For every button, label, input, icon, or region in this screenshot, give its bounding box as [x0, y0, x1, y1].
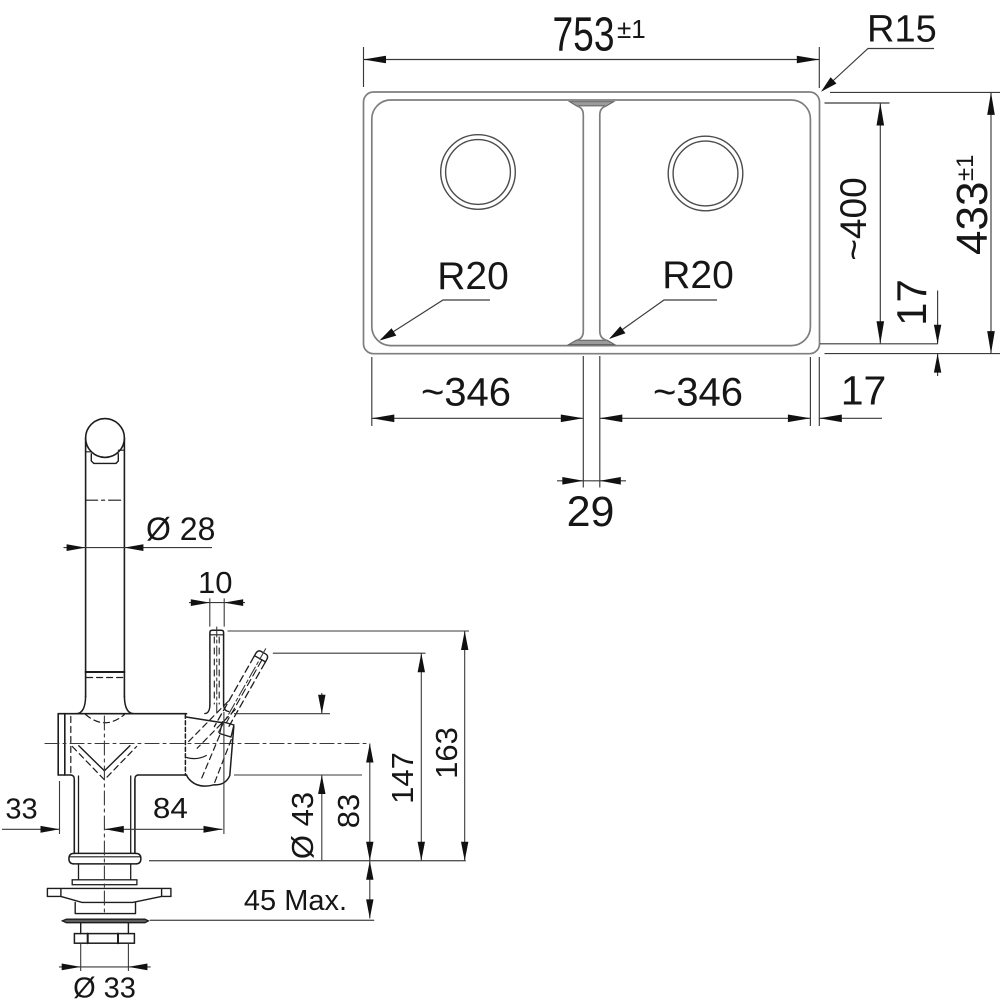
- ref line 45 bottom: [150, 919, 374, 921]
- handle lever (phantom): [211, 646, 271, 738]
- mounting nut: [74, 934, 134, 944]
- dim D43 extension lines: [234, 714, 362, 775]
- dim 17 right vertical line: [937, 291, 939, 377]
- pin centerline: [216, 627, 218, 712]
- dim 433 line: [990, 92, 992, 353]
- dim 84 line: [105, 828, 223, 830]
- svg-text:45 Max.: 45 Max.: [244, 885, 347, 917]
- dim 10 extension lines: [210, 598, 224, 626]
- dim 33 line: [2, 828, 60, 830]
- bottom extension lines: [372, 357, 820, 426]
- wedge phantom lever edges: [189, 702, 236, 749]
- svg-text:±1: ±1: [617, 14, 646, 44]
- R15 leader: [823, 49, 935, 91]
- svg-text:29: 29: [567, 488, 615, 536]
- dim 433 text: [948, 154, 997, 255]
- flange mid line: [69, 856, 140, 858]
- svg-text:84: 84: [153, 793, 188, 825]
- inner bottom extension line: [820, 343, 938, 345]
- dim 753 line: [364, 59, 820, 61]
- svg-text:33: 33: [5, 794, 37, 826]
- dim D33 line: [59, 966, 151, 968]
- sink outer rim: [364, 92, 820, 354]
- base fillets: [71, 775, 138, 780]
- spout-body flare: [76, 696, 134, 714]
- wedge inner arc: [187, 756, 207, 759]
- ref line pin top (163): [228, 630, 470, 632]
- dim D28 line: [64, 547, 213, 549]
- pin bottom flare: [205, 705, 229, 714]
- pin outline: [210, 630, 224, 706]
- right bowl drain hole: [668, 136, 743, 211]
- dim ~346 left line: [372, 417, 584, 419]
- ref line lever top (147): [273, 652, 426, 654]
- spout break dash-dot: [86, 499, 125, 501]
- dim D43 line and arrows: [321, 693, 323, 861]
- svg-text:Ø 43: Ø 43: [285, 792, 320, 859]
- svg-text:163: 163: [429, 727, 464, 779]
- wedge hidden lever lines: [201, 736, 232, 786]
- divider top cap: [570, 102, 614, 106]
- dim ~400 extension line: [825, 102, 890, 104]
- body centerline horizontal: [45, 743, 367, 745]
- svg-text:~400: ~400: [833, 177, 874, 260]
- spout coupling line: [86, 671, 125, 673]
- svg-text:17: 17: [888, 279, 935, 326]
- dim 753 extension lines: [364, 47, 820, 88]
- faucet centerline vertical: [103, 716, 105, 914]
- dim ~346 right line: [600, 417, 811, 419]
- dim 17 bottom line: [819, 417, 882, 419]
- dim 433 extension lines: [825, 92, 1000, 353]
- cartridge wedge outline: [185, 717, 233, 786]
- body left hidden line: [70, 717, 72, 773]
- left bowl drain hole: [441, 135, 516, 210]
- divider extension lines: [583, 356, 600, 488]
- escutcheon plate: [47, 888, 170, 902]
- body left end cap: [58, 714, 65, 775]
- svg-text:83: 83: [331, 794, 366, 828]
- dim 83 line: [369, 744, 371, 861]
- svg-text:147: 147: [385, 752, 420, 804]
- body top line: [58, 713, 186, 715]
- dim 147 line: [420, 653, 422, 861]
- svg-text:433: 433: [948, 182, 997, 255]
- flange: [69, 853, 141, 864]
- hidden cone V: [72, 747, 136, 780]
- dim ~400 line: [879, 103, 881, 344]
- hidden tube arc in body: [86, 715, 125, 723]
- divider left wall: [577, 106, 584, 340]
- stem below flange: [79, 864, 131, 880]
- ref line counter top: [149, 860, 466, 862]
- base column outer walls: [74, 780, 135, 854]
- dim 29 line: [557, 480, 626, 482]
- svg-text:17: 17: [841, 368, 887, 414]
- svg-text:±1: ±1: [952, 154, 979, 181]
- divider right wall: [600, 106, 607, 340]
- svg-text:Ø 33: Ø 33: [73, 973, 136, 1000]
- spacer ring: [72, 880, 137, 885]
- svg-text:R20: R20: [662, 254, 734, 297]
- svg-text:R15: R15: [867, 9, 937, 51]
- divider bottom cap: [569, 340, 615, 344]
- spout cap seam ticks: [86, 450, 125, 452]
- shank upper: [81, 923, 129, 934]
- nut face lines: [88, 934, 118, 944]
- dim 10 line: [189, 602, 245, 604]
- spout cap cup: [91, 454, 118, 464]
- dim 163 line: [464, 631, 466, 861]
- sink inner bowl rim: [372, 100, 811, 346]
- dim D33 extension lines: [81, 943, 129, 971]
- lever collar: [220, 722, 234, 737]
- thin washer plate: [62, 919, 148, 923]
- svg-text:753: 753: [553, 9, 615, 62]
- R20 right leader: [611, 300, 718, 338]
- body bottom lines: [58, 774, 186, 776]
- wedge knurled left edge: [184, 714, 186, 775]
- R20 left leader: [381, 300, 490, 340]
- svg-text:~346: ~346: [421, 371, 511, 415]
- spout tube silhouette: [86, 438, 125, 697]
- pin cap seam: [210, 634, 224, 636]
- base column inner walls: [79, 776, 131, 853]
- dim 45max line: [369, 861, 371, 919]
- svg-text:R20: R20: [437, 255, 509, 298]
- spout coupling hidden line: [87, 677, 124, 679]
- svg-text:~346: ~346: [653, 371, 743, 415]
- dim 33/84 extension lines: [60, 712, 224, 834]
- svg-text:Ø 28: Ø 28: [146, 511, 215, 547]
- svg-text:10: 10: [198, 565, 232, 600]
- pin hidden bores: [214, 637, 219, 704]
- lower column: [75, 902, 135, 913]
- spout top ball: [86, 419, 125, 458]
- inner cone V: [79, 746, 130, 771]
